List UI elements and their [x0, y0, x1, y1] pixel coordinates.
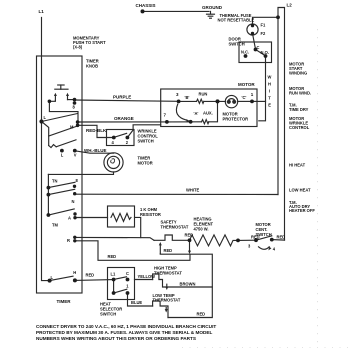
svg-text:CONTROL: CONTROL: [289, 125, 310, 130]
wire purple from start contact to motor 3: [75, 100, 179, 101]
label HEAT SELECTOR SWITCH: [100, 302, 122, 317]
label LOW TEMP THERMOSTAT: [153, 293, 181, 303]
wire low temp stat arrow: [165, 308, 168, 313]
svg-text:RED: RED: [277, 234, 286, 239]
svg-text:W: W: [268, 75, 272, 80]
svg-text:RED: RED: [108, 254, 117, 259]
label H heat: [73, 270, 76, 275]
thermostat high temp symbol: [153, 274, 213, 287]
svg-text:V: V: [74, 153, 77, 158]
fold mark dotted vertical: [317, 29, 319, 345]
switch timer linkage squiggle: [49, 145, 57, 148]
switch wrinkle arm: [115, 133, 127, 137]
svg-text:WH.-BLUE: WH.-BLUE: [84, 148, 107, 153]
node selector lower: [112, 291, 116, 295]
svg-text:SWITCH: SWITCH: [100, 312, 116, 317]
label TIMER MOTOR: [138, 156, 153, 166]
wire protector to terminal 1: [238, 100, 252, 102]
node motor terminal 7: [165, 120, 169, 124]
wire aux return up to node: [209, 101, 218, 121]
label BLUE: [131, 300, 142, 305]
svg-text:HEATER OFF: HEATER OFF: [289, 208, 315, 213]
svg-text:CONNECT DRYER TO 240 V.A.C., 6: CONNECT DRYER TO 240 V.A.C., 60 HZ, 1 PH…: [36, 324, 216, 329]
svg-text:RED: RED: [86, 273, 95, 278]
label TM: [52, 223, 59, 228]
svg-text:E: E: [268, 103, 271, 108]
svg-text:BLUE: BLUE: [131, 300, 142, 305]
svg-text:YELLOW: YELLOW: [138, 274, 156, 279]
motor timer motor M2: [104, 153, 123, 172]
svg-text:M: M: [70, 125, 74, 130]
svg-text:RED: RED: [164, 248, 173, 253]
label 8 TN: [76, 178, 79, 183]
wire terminal 7 to aux winding: [167, 121, 202, 123]
svg-text:THERMOSTAT: THERMOSTAT: [161, 225, 189, 230]
svg-text:RESISTOR: RESISTOR: [140, 212, 161, 217]
label connection instructions text block: [36, 324, 216, 341]
node R upper: [73, 236, 76, 239]
node motor terminal A: [189, 120, 193, 124]
node start contact 8 upper: [73, 98, 77, 102]
svg-text:MOTOR: MOTOR: [138, 161, 153, 166]
label WHITE horizontal: [186, 188, 199, 193]
wire motor terminal 1 to white: [252, 100, 266, 102]
switch timer arm C to wh-blue contact: [56, 140, 76, 147]
svg-text:SWITCH: SWITCH: [256, 232, 272, 237]
wire L1 vertical into timer and corner to L contact: [42, 18, 50, 281]
wire TN bar: [47, 174, 49, 215]
node start contact 8 lower: [73, 101, 77, 105]
svg-text:I: I: [269, 89, 270, 94]
label THERMAL FUSE NOT RESETTABLE: [218, 13, 255, 23]
label AUX.: [203, 111, 213, 116]
label N.C.: [241, 50, 249, 55]
switch motor centrifugal heater arm: [256, 236, 272, 240]
motor protector circle U1: [225, 95, 237, 107]
label A: [68, 216, 71, 221]
svg-text:F2: F2: [261, 31, 267, 36]
wire blue selector 1 to low temp stat: [128, 293, 153, 306]
node cent switch 4: [270, 238, 274, 242]
svg-text:NUMBERS WHEN WRITING ABOUT THI: NUMBERS WHEN WRITING ABOUT THIS DRYER OR…: [36, 336, 196, 341]
label R: [67, 238, 70, 243]
node cent switch 3: [254, 238, 258, 242]
label RED safety right: [185, 233, 194, 238]
label WHITE vertical: [268, 75, 272, 108]
svg-text:WHITE: WHITE: [186, 188, 199, 193]
switch timer arm to M lower: [49, 126, 77, 136]
label 4: [112, 140, 115, 145]
wire red-blk from timer M to wrinkle 4: [78, 125, 114, 137]
node wh-blue contact V: [73, 149, 77, 153]
node motor terminal 3: [177, 100, 181, 104]
label RED element right: [251, 234, 260, 239]
wire motor 3 to run winding: [179, 100, 197, 102]
node L1 junction in timer: [39, 119, 43, 123]
label TIMER KNOB: [86, 59, 99, 69]
switch TN arm 2: [48, 189, 74, 194]
svg-text:THERMOSTAT: THERMOSTAT: [154, 270, 182, 275]
svg-text:'A': 'A': [194, 111, 199, 116]
label L heat: [51, 275, 54, 280]
ground symbol: [207, 11, 215, 18]
switch door switch arm C-NO: [256, 50, 266, 56]
fuse F1-F2 thermal fuse circle: [247, 24, 258, 35]
node door C dot: [254, 48, 258, 52]
label MOMENTARY PUSH TO START: [73, 36, 106, 50]
node M lower: [76, 124, 80, 128]
label SAFETY THERMOSTAT: [161, 220, 189, 230]
label C selector: [126, 271, 129, 276]
wire left start contact elbow: [49, 100, 55, 101]
wire orange to motor terminal 7: [78, 121, 167, 123]
node L2 tap dot: [276, 15, 280, 19]
svg-text:RED: RED: [197, 311, 206, 316]
fold mark dotted horizontal: [182, 347, 348, 349]
node fuse F1 dot: [251, 24, 254, 27]
svg-text:PROTECTOR: PROTECTOR: [223, 117, 249, 122]
svg-text:L2: L2: [287, 3, 293, 8]
label RED cent right: [277, 234, 286, 239]
node timer L heat: [48, 279, 52, 283]
node TN bar contact 1: [47, 186, 51, 190]
svg-text:L1: L1: [111, 272, 117, 277]
svg-text:N.O.: N.O.: [261, 50, 269, 55]
switch heat selector box: [108, 268, 135, 300]
label F1: [261, 23, 267, 28]
node R lower: [73, 239, 76, 242]
label 'B': [185, 95, 190, 100]
node timer H heat: [73, 278, 77, 282]
thermostat safety symbol: [154, 235, 188, 240]
svg-text:RED-BLK: RED-BLK: [86, 128, 107, 133]
svg-text:RED: RED: [185, 233, 194, 238]
node TM bar contact: [47, 213, 51, 217]
switch selector arm L1-C: [114, 277, 127, 280]
wire timer motor return to TN bar: [48, 172, 113, 174]
wire timer R top to safety thermostat: [75, 237, 154, 240]
wire resistor output down to red line: [135, 217, 141, 237]
wire wh-blue timer to timer motor: [75, 151, 114, 153]
wire yellow selector C to high temp stat: [135, 279, 153, 281]
node wrinkle terminal 4: [112, 136, 116, 140]
svg-text:N: N: [72, 199, 75, 204]
node L2 bus top bend: [278, 8, 285, 241]
node M upper: [76, 120, 80, 124]
label HEATING ELEMENT 4750 W: [194, 217, 214, 232]
box motor: [161, 89, 257, 127]
svg-text:BROWN: BROWN: [180, 281, 196, 286]
svg-text:L1: L1: [39, 9, 45, 14]
switch motor centrifugal start arc: [176, 104, 189, 123]
label 1 K OHM RESISTOR: [140, 207, 161, 217]
switch TN arm 1: [48, 182, 75, 187]
node A lower: [73, 216, 76, 219]
label 2: [126, 140, 129, 145]
svg-text:(X-8): (X-8): [73, 45, 83, 50]
switch push-to-start left contact arrow: [54, 93, 57, 101]
switch push-to-start right contact arrow: [66, 93, 69, 100]
wire door switch NO white down to motor: [259, 56, 266, 121]
label L wh-blue: [61, 153, 64, 158]
switch TM arm: [48, 209, 74, 215]
svg-text:TIMER: TIMER: [57, 299, 72, 304]
label L timer top: [44, 115, 47, 120]
switch timer arm B linkage: [42, 122, 49, 146]
resistor heating element zigzag: [190, 235, 239, 246]
label RED heat selector: [86, 273, 95, 278]
wire F2 to door switch C: [253, 35, 256, 49]
svg-text:F1: F1: [261, 23, 267, 28]
node run-aux junction: [216, 99, 220, 103]
node motor terminal 1: [250, 100, 254, 104]
svg-text:C: C: [126, 271, 129, 276]
box timer: [37, 56, 83, 293]
label F2: [261, 31, 267, 36]
label DOOR SWITCH: [229, 37, 245, 47]
label RED safety below: [164, 248, 173, 253]
node selector 1: [126, 291, 130, 295]
resistor RUN winding: [197, 99, 204, 103]
svg-text:'B': 'B': [185, 95, 190, 100]
node start contact left: [48, 100, 52, 104]
node door NO dot: [264, 54, 268, 58]
switch wrinkle control box: [107, 130, 135, 146]
thermostat low temp symbol: [153, 301, 168, 318]
resistor 1K ohm box: [108, 206, 135, 227]
svg-text:KNOB: KNOB: [86, 64, 98, 69]
switch motor centrifugal heater arc: [259, 247, 272, 251]
label N.O.: [261, 50, 269, 55]
svg-text:H: H: [73, 270, 76, 275]
svg-text:R: R: [67, 238, 70, 243]
svg-text:N.C.: N.C.: [241, 50, 249, 55]
wire thermostat common line to low temp return: [160, 254, 212, 318]
label RED low temp: [197, 311, 206, 316]
svg-text:PROTECTED BY MAXIMUM 30 A. FUS: PROTECTED BY MAXIMUM 30 A. FUSES. ALWAYS…: [36, 330, 213, 335]
label HIGH TEMP THERMOSTAT: [154, 266, 182, 276]
label 4 cent: [273, 247, 276, 252]
label V wh-blue: [74, 153, 77, 158]
svg-text:SWITCH: SWITCH: [138, 139, 154, 144]
svg-text:'C': 'C': [242, 95, 247, 100]
svg-text:RUN WIND.: RUN WIND.: [289, 91, 311, 96]
label 'C': [242, 95, 247, 100]
svg-text:AUX.: AUX.: [203, 111, 213, 116]
label M timer: [70, 125, 74, 130]
svg-text:SWITCH: SWITCH: [229, 42, 245, 47]
resistor AUX winding: [202, 120, 209, 124]
node wrinkle terminal 2: [126, 136, 130, 140]
svg-text:LOW HEAT: LOW HEAT: [289, 188, 311, 193]
svg-text:RUN: RUN: [199, 92, 208, 97]
wire right start contact to purple node 8: [68, 99, 75, 101]
svg-text:4750 W.: 4750 W.: [194, 227, 209, 232]
node TN contact N: [73, 192, 76, 195]
node heater junction left: [188, 238, 192, 242]
node fuse F2 dot: [251, 32, 254, 35]
switch push-to-start button cap: [55, 85, 68, 89]
wire timer A to resistor: [75, 217, 108, 219]
wire run to protector: [204, 100, 226, 102]
svg-text:WINDING: WINDING: [289, 71, 307, 76]
label TN: [52, 179, 58, 184]
node L1 label: [0, 0, 1, 1]
label 1 selector: [126, 283, 129, 288]
node selector C: [126, 278, 130, 282]
wire wrinkle switch 2 to motor frame: [127, 125, 160, 138]
wire cent switch 4 to L2: [272, 239, 285, 242]
wire start contact down to M node: [49, 101, 78, 122]
svg-text:H: H: [268, 82, 271, 87]
label 8 start: [73, 105, 76, 110]
wire timer H to heat selector: [75, 279, 114, 282]
svg-text:PURPLE: PURPLE: [113, 95, 131, 100]
switch timer heat arm L-H: [50, 276, 73, 280]
node heater junction right: [236, 239, 240, 243]
wire timer R bottom red jog: [75, 241, 190, 260]
node TN bar contact 2: [47, 193, 51, 197]
wire thermal fuse F1 to L2: [253, 17, 279, 24]
wire chassis to ground: [143, 10, 210, 12]
switch timer arm L1 to M: [42, 114, 78, 122]
wire heater junction down arrow: [188, 240, 191, 254]
svg-text:CHASSIS: CHASSIS: [136, 3, 156, 8]
node selector L1: [112, 278, 116, 282]
label 3 cent: [248, 244, 251, 249]
node chassis dot: [141, 9, 145, 13]
node wh-blue contact L: [60, 149, 64, 153]
svg-text:NOT RESETTABLE: NOT RESETTABLE: [218, 17, 255, 22]
wire element to cent switch: [238, 239, 256, 241]
label N: [72, 199, 75, 204]
label RUN: [199, 92, 208, 97]
label L1 selector: [111, 272, 117, 277]
wire selector L1 bar down: [113, 280, 115, 294]
node door NC dot: [244, 54, 248, 58]
label YELLOW: [138, 274, 156, 279]
svg-text:HI HEAT: HI HEAT: [289, 163, 306, 168]
switch door switch box: [239, 42, 272, 63]
svg-text:TIME DRY: TIME DRY: [289, 107, 309, 112]
wire high temp stat arrow: [165, 284, 168, 290]
svg-text:A: A: [68, 216, 71, 221]
label RED lower jog: [108, 254, 117, 259]
label MOTOR CENT. SWITCH: [256, 222, 272, 237]
switch selector arm lower to 1: [114, 289, 127, 293]
wire safety stat input arrow: [159, 242, 162, 254]
svg-text:TM: TM: [52, 223, 59, 228]
label BROWN: [180, 281, 196, 286]
svg-text:ORANGE: ORANGE: [114, 116, 134, 121]
label C door: [257, 45, 260, 50]
label MOTOR PROTECTOR: [223, 112, 249, 122]
svg-text:MOTOR: MOTOR: [238, 82, 255, 87]
svg-text:THERMOSTAT: THERMOSTAT: [153, 298, 181, 303]
label WRINKLE CONTROL SWITCH: [138, 129, 159, 144]
node A upper: [73, 212, 76, 215]
svg-text:GROUND: GROUND: [202, 5, 223, 10]
node TN contact 8: [73, 185, 76, 188]
wire white neutral horizontal to timer N: [75, 193, 278, 195]
svg-text:C: C: [257, 45, 260, 50]
label 'A': [194, 111, 199, 116]
svg-text:TN: TN: [52, 179, 58, 184]
resistor 1K ohm zigzag: [111, 213, 131, 221]
